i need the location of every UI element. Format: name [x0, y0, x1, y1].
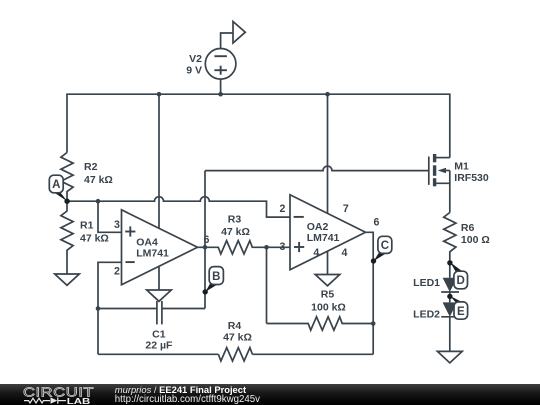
wire bottom feedback row	[98, 353, 218, 355]
junction bus and V2	[218, 92, 223, 97]
svg-text:IRF530: IRF530	[454, 172, 489, 184]
node A	[49, 175, 70, 204]
label V2 value	[186, 53, 202, 77]
ground under R1	[55, 274, 80, 285]
wire OA2 pin3 input	[267, 246, 291, 248]
svg-text:LED2: LED2	[413, 309, 440, 321]
svg-text:http://circuitlab.com/ctfft9kw: http://circuitlab.com/ctfft9kwg245v	[115, 394, 260, 405]
svg-text:6: 6	[373, 217, 379, 229]
node E	[447, 294, 467, 320]
resistor R3	[205, 241, 267, 254]
svg-text:47 kΩ: 47 kΩ	[84, 174, 113, 186]
svg-text:7: 7	[343, 203, 349, 215]
logo CIRCUIT	[23, 387, 94, 401]
svg-text:3: 3	[114, 219, 120, 231]
diode LED2	[441, 302, 459, 351]
wire OA4 pin2 feedback column	[98, 262, 122, 354]
svg-text:LED1: LED1	[413, 277, 440, 289]
wire OA2 output	[366, 232, 374, 354]
node C	[371, 236, 392, 263]
transistor M1	[429, 154, 450, 213]
junction R3 OA2 pin3 R5	[264, 245, 269, 250]
junction R5 OA2 output	[371, 321, 376, 326]
svg-text:C: C	[381, 240, 389, 252]
svg-text:3: 3	[280, 241, 286, 253]
label OA4 name	[136, 237, 169, 260]
junction node A to OA4 pin3	[96, 199, 101, 204]
resistor R4	[218, 348, 252, 361]
wire OA2 pin7 supply	[327, 94, 329, 213]
wire top supply bus	[67, 94, 450, 157]
junction bus and OA4 pin7	[157, 92, 162, 97]
svg-text:M1: M1	[454, 161, 469, 173]
svg-text:47 kΩ: 47 kΩ	[223, 332, 252, 344]
logo LAB	[67, 397, 91, 405]
label M1 name	[454, 161, 489, 185]
svg-text:47 kΩ: 47 kΩ	[80, 233, 109, 245]
ground under OA4	[147, 290, 172, 301]
label R2 value	[84, 161, 113, 186]
wire OA2 pin4	[327, 251, 329, 274]
wire node A row with hops	[67, 197, 290, 217]
svg-text:LM741: LM741	[136, 248, 169, 260]
label OA2 name	[307, 221, 340, 244]
svg-text:2: 2	[114, 266, 120, 278]
svg-text:100 Ω: 100 Ω	[461, 234, 490, 246]
svg-text:E: E	[457, 306, 465, 318]
logo resistor-diode glyph	[24, 397, 66, 403]
resistor R2	[61, 153, 73, 202]
svg-text:4: 4	[341, 247, 347, 259]
junction C1 feedback column	[96, 306, 101, 311]
junction OA4 output R3	[203, 245, 208, 250]
svg-text:R5: R5	[321, 289, 335, 301]
svg-text:A: A	[52, 179, 60, 191]
wire OA4 output to M1 gate with hop	[205, 166, 429, 171]
wire OA4 pin4	[158, 266, 160, 290]
node B	[203, 267, 224, 295]
diode LED1	[441, 278, 459, 303]
svg-text:4: 4	[313, 247, 319, 259]
svg-text:9 V: 9 V	[186, 65, 202, 77]
label R6 value	[461, 222, 490, 246]
resistor R6	[444, 213, 456, 278]
wire OA4 pin3 input	[98, 201, 122, 232]
junction bus and OA2 pin7	[325, 92, 330, 97]
junction node A R1 R2	[65, 199, 70, 204]
voltage source V2	[205, 49, 236, 95]
label R1 value	[80, 220, 109, 245]
label R5 value	[311, 289, 346, 314]
svg-text:R1: R1	[80, 220, 94, 232]
node D	[447, 260, 467, 289]
svg-text:D: D	[457, 275, 465, 287]
svg-text:R4: R4	[228, 320, 242, 332]
svg-text:2: 2	[280, 203, 286, 215]
label R4 value	[223, 320, 252, 344]
V2 flag terminal	[221, 22, 246, 49]
svg-text:22 µF: 22 µF	[145, 340, 173, 352]
svg-text:100 kΩ: 100 kΩ	[311, 302, 346, 314]
wire OA4 pin7 supply	[158, 94, 160, 228]
svg-text:47 kΩ: 47 kΩ	[221, 226, 250, 238]
footer bar	[0, 384, 540, 405]
svg-text:R2: R2	[84, 161, 98, 173]
capacitor C1	[157, 301, 162, 324]
wire R5 branch from pin3	[266, 247, 268, 323]
op-amp OA2	[290, 195, 366, 270]
svg-text:LAB: LAB	[67, 397, 91, 405]
resistor R1	[61, 201, 73, 274]
ground under LEDs	[437, 351, 462, 363]
svg-text:B: B	[212, 271, 220, 283]
svg-text:V2: V2	[189, 53, 202, 65]
wire C1 row	[98, 308, 157, 310]
op-amp OA4	[122, 210, 198, 285]
svg-text:LM741: LM741	[307, 232, 340, 244]
label R3 value	[221, 214, 250, 239]
svg-text:R3: R3	[228, 214, 242, 226]
label C1 value	[145, 329, 173, 352]
svg-text:R6: R6	[461, 222, 475, 234]
resistor R5	[267, 317, 374, 330]
wire OA4 output	[198, 246, 206, 248]
wire OA4 output column vertical	[204, 171, 206, 309]
ground under OA2	[315, 275, 340, 286]
